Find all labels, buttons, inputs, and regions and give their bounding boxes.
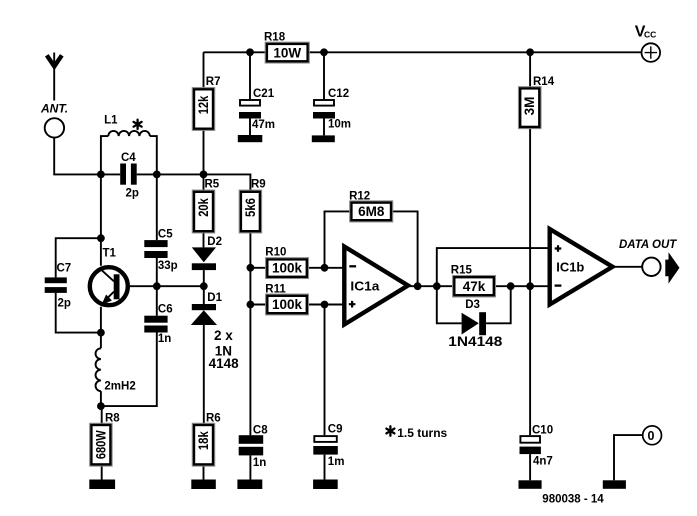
svg-text:R5: R5: [205, 179, 220, 191]
svg-text:R7: R7: [206, 76, 221, 88]
svg-text:L1: L1: [104, 115, 118, 127]
svg-text:47k: 47k: [463, 279, 486, 294]
svg-text:T1: T1: [103, 248, 117, 260]
svg-text:R10: R10: [265, 247, 286, 259]
svg-text:2mH2: 2mH2: [104, 380, 135, 392]
svg-text:DATA OUT: DATA OUT: [619, 239, 677, 251]
svg-text:680W: 680W: [93, 430, 108, 459]
svg-text:20k: 20k: [196, 198, 211, 217]
svg-text:1n: 1n: [158, 333, 171, 345]
svg-text:1.5 turns: 1.5 turns: [397, 426, 447, 440]
svg-text:R9: R9: [251, 179, 266, 191]
svg-text:5k6: 5k6: [243, 198, 258, 217]
svg-text:2p: 2p: [58, 298, 71, 310]
svg-text:D2: D2: [207, 236, 222, 248]
svg-text:C4: C4: [121, 152, 136, 164]
svg-text:IC1b: IC1b: [556, 260, 584, 275]
svg-text:100k: 100k: [272, 297, 303, 312]
svg-text:1m: 1m: [328, 456, 345, 468]
svg-text:C7: C7: [57, 263, 72, 275]
svg-text:C12: C12: [328, 88, 349, 100]
svg-text:R8: R8: [105, 413, 120, 425]
svg-text:C9: C9: [328, 424, 343, 436]
svg-text:4148: 4148: [209, 356, 240, 371]
svg-text:ANT.: ANT.: [40, 102, 68, 116]
svg-text:4n7: 4n7: [533, 456, 553, 468]
svg-text:1N4148: 1N4148: [448, 334, 503, 349]
svg-text:0: 0: [648, 429, 655, 443]
svg-text:10W: 10W: [273, 45, 301, 60]
svg-text:C8: C8: [253, 425, 268, 437]
svg-text:CC: CC: [644, 30, 656, 40]
svg-text:980038 - 14: 980038 - 14: [542, 493, 604, 505]
svg-text:C6: C6: [158, 304, 173, 316]
svg-text:18k: 18k: [196, 431, 211, 450]
svg-text:C10: C10: [532, 425, 553, 437]
svg-text:R11: R11: [265, 284, 286, 296]
svg-text:47m: 47m: [252, 119, 275, 131]
svg-text:12k: 12k: [196, 95, 211, 114]
svg-text:R15: R15: [451, 265, 473, 277]
svg-text:2p: 2p: [126, 188, 139, 200]
svg-text:R14: R14: [533, 76, 555, 88]
svg-text:IC1a: IC1a: [350, 278, 380, 293]
svg-text:100k: 100k: [272, 261, 303, 276]
svg-text:R18: R18: [264, 32, 286, 44]
svg-text:2 x: 2 x: [214, 328, 233, 343]
svg-text:33p: 33p: [158, 260, 178, 272]
svg-text:R6: R6: [206, 413, 221, 425]
svg-text:3M: 3M: [522, 97, 537, 116]
svg-text:6M8: 6M8: [358, 204, 385, 219]
svg-text:1n: 1n: [253, 457, 266, 469]
svg-text:C21: C21: [253, 88, 275, 100]
svg-text:D3: D3: [465, 299, 480, 311]
svg-text:D1: D1: [207, 292, 222, 304]
svg-text:R12: R12: [349, 191, 370, 203]
svg-text:C5: C5: [158, 229, 173, 241]
svg-text:10m: 10m: [328, 118, 351, 130]
